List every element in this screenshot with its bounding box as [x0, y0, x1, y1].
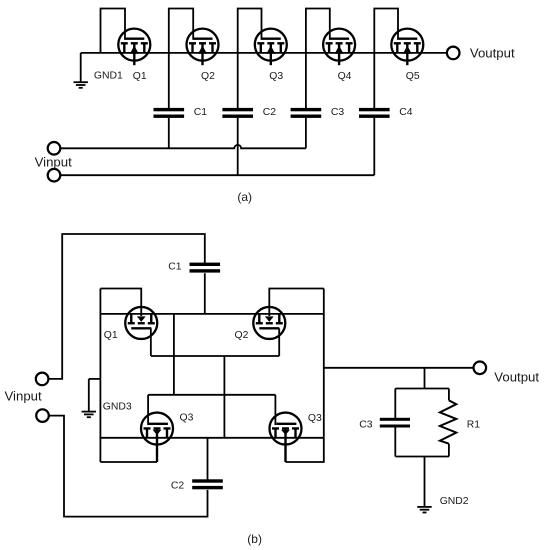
wire: left edge (Vinput node bus) [99, 289, 101, 463]
resistor R1 [440, 400, 456, 443]
svg-text:Voutput: Voutput [470, 46, 515, 61]
svg-text:Q1: Q1 [133, 71, 147, 82]
wire: Q3 horizontal rail [100, 437, 323, 439]
wire: gate loop of Q4 (diode connection from node 3) [306, 9, 330, 53]
wire: node 3 down to C3 [305, 53, 307, 108]
svg-text:Vinput: Vinput [35, 155, 72, 170]
transistor Q2 [187, 29, 219, 66]
wire: gate loop of Q5 (diode connection from node 4) [374, 9, 398, 53]
terminal: Voutput (a) [447, 47, 460, 60]
svg-text:Vinput: Vinput [5, 389, 42, 404]
capacitor C3 [380, 418, 410, 428]
wire: C2 to Vinput bottom terminal [49, 416, 208, 517]
svg-text:R1: R1 [467, 419, 481, 430]
capacitor C2 (b) [192, 479, 223, 489]
wire: Q3L gate drop [147, 395, 149, 425]
wire: Q1-Q2 horizontal rail [100, 313, 323, 315]
capacitor C3 [291, 108, 322, 118]
wire: output tap down to RC box [424, 368, 426, 389]
transistor Q5 [391, 29, 423, 66]
transistor Q3 (left) [141, 413, 173, 462]
ground GND3 [82, 379, 101, 417]
svg-text:Q2: Q2 [201, 71, 215, 82]
svg-text:C1: C1 [168, 262, 182, 273]
svg-text:C2: C2 [171, 481, 185, 492]
svg-text:GND3: GND3 [103, 401, 132, 412]
transistor Q3 (right) [270, 413, 302, 462]
svg-text:Voutput: Voutput [494, 369, 539, 384]
wire: C4 down to input rail [373, 118, 375, 175]
wire: node 2 down to C2 [237, 53, 239, 108]
transistor Q1 (b) [125, 307, 157, 339]
terminal: Vinput lower (a) [48, 169, 61, 182]
svg-text:Q3: Q3 [180, 413, 194, 424]
svg-text:GND2: GND2 [440, 496, 469, 507]
wire: right edge (output bus) [323, 289, 325, 438]
wire: Voutput line (b) [324, 367, 474, 369]
wire: C3 upper lead [394, 389, 396, 419]
transistor Q1 [118, 29, 150, 66]
svg-text:(a): (a) [237, 190, 252, 204]
svg-text:Q2: Q2 [235, 330, 249, 341]
wire: Vinput top terminal to C1 [48, 234, 204, 379]
capacitor C2 [222, 108, 253, 118]
wire: gate tie down to Q3 rail [223, 356, 225, 438]
svg-text:Q3: Q3 [269, 71, 283, 82]
wire: Q3 rail down to C2 [207, 438, 209, 480]
wire: gate loop of Q2 (diode connection from node 1) [169, 9, 193, 53]
wire: C1 down to input rail [168, 118, 170, 148]
svg-text:C3: C3 [359, 419, 373, 430]
capacitor C1 (b) [190, 263, 221, 273]
terminal: Vinput upper (b) [36, 373, 49, 386]
svg-text:C3: C3 [331, 107, 345, 118]
wire: node 4 down to C4 [373, 53, 375, 108]
wire: R1 upper lead [448, 389, 450, 401]
wire: Q3L body tie [100, 461, 157, 463]
wire: Q3R gate drop [274, 395, 276, 425]
wire: loop from left edge to Q1 body [100, 289, 141, 316]
wire: gate loop of Q1 (diode connection from node 0) [101, 9, 126, 53]
transistor Q4 [323, 29, 355, 66]
wire: Q3 gate line [148, 394, 275, 396]
svg-text:GND1: GND1 [94, 71, 123, 82]
svg-text:Q4: Q4 [338, 71, 352, 82]
wire: Vinput lower rail [60, 174, 374, 176]
transistor Q3 [255, 29, 287, 66]
wire: C3 down to input rail [305, 118, 307, 148]
transistor Q2 (b) [253, 307, 285, 339]
svg-text:Q5: Q5 [406, 71, 420, 82]
wire: Q2 gate down to gate tie [278, 328, 280, 356]
wire: RC box top edge [395, 388, 449, 390]
ground GND1 [74, 53, 88, 88]
ground GND2 [417, 457, 431, 513]
wire: gate loop of Q3 (diode connection from node 2) [238, 9, 262, 53]
wire: node 1 down to C1 [168, 53, 170, 108]
wire: gate tie Q1-Q2 (U bottom edge) [151, 355, 279, 357]
wire: R1 lower lead [448, 444, 450, 457]
wire: Vinput upper rail (with hop over C2 wire) [60, 145, 306, 148]
terminal: Vinput upper (a) [48, 142, 61, 155]
wire: C1 down to Q1-Q2 rail [204, 273, 206, 314]
svg-text:C1: C1 [194, 107, 208, 118]
wire: RC box bottom edge [395, 456, 449, 458]
svg-text:Q1: Q1 [104, 330, 118, 341]
terminal: Vinput lower (b) [36, 409, 49, 422]
svg-text:(b): (b) [247, 532, 262, 546]
capacitor C1 [154, 108, 185, 118]
capacitor C4 [359, 108, 390, 118]
wire: circuit (a) main horizontal rail [81, 52, 447, 54]
wire: C2 down to input rail [237, 118, 239, 175]
wire: rail tap down to Q3 gate line [173, 314, 175, 395]
wire: loop from Q2 body to right edge [269, 289, 324, 316]
svg-text:C2: C2 [263, 107, 277, 118]
wire: C3 lower lead [394, 428, 396, 457]
svg-text:Q3: Q3 [308, 413, 322, 424]
terminal: Voutput (b) [474, 362, 487, 375]
wire: Q1 gate down to gate tie [150, 328, 152, 356]
svg-text:C4: C4 [399, 107, 413, 118]
wire: Q3R body tie [286, 438, 324, 462]
